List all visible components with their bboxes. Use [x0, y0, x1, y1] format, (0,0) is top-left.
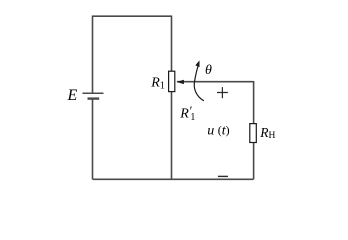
wiper arrowhead [176, 80, 184, 84]
minus sign [218, 175, 228, 177]
wire: bottom shared wire [93, 178, 254, 180]
svg-text:R′1: R′1 [179, 104, 195, 123]
wiper wire to right loop [177, 81, 254, 83]
rotation arc for theta [194, 65, 204, 101]
plus sign [217, 87, 228, 98]
wire: right vertical below RH [253, 143, 255, 180]
resistor RH body [250, 124, 256, 143]
svg-text:u (t): u (t) [207, 123, 229, 138]
wire: top of left loop [93, 15, 172, 17]
wire: left vertical below battery [92, 99, 94, 180]
potentiometer R1 body [169, 71, 175, 91]
wire: left vertical above battery [92, 16, 94, 94]
svg-text:θ: θ [205, 63, 212, 78]
svg-text:E: E [67, 87, 78, 104]
wire: right vertical above RH [253, 81, 255, 124]
wire: middle vertical below R1 box [171, 92, 173, 180]
wire: middle vertical above R1 box [171, 16, 173, 72]
battery E negative plate (short thick) [88, 97, 100, 99]
svg-text:RH: RH [259, 125, 275, 141]
rotation arrowhead [195, 60, 199, 67]
svg-text:R1: R1 [150, 75, 165, 91]
battery E positive plate (long) [83, 92, 104, 94]
